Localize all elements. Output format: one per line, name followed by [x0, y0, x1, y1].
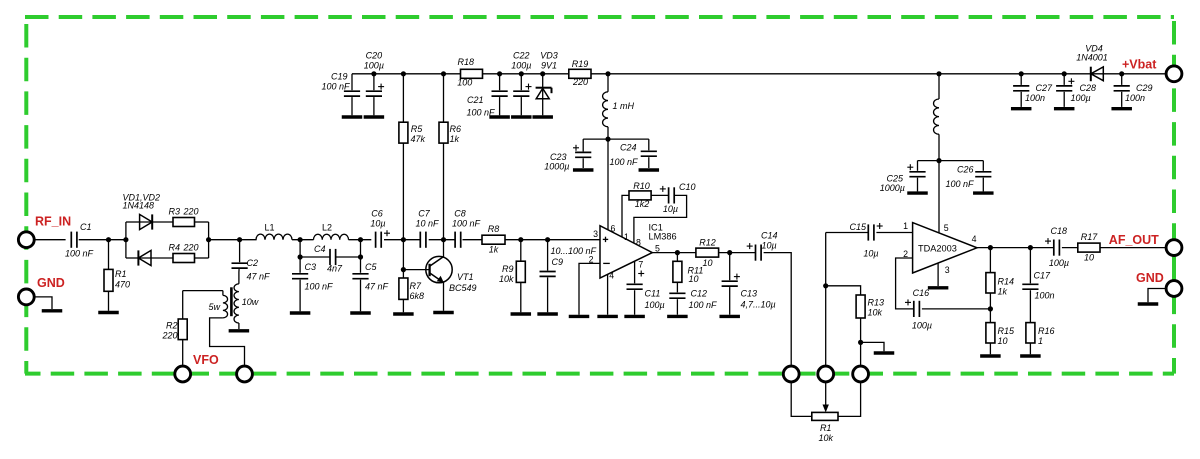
wire C14 to volume terminal — [764, 253, 792, 367]
capacitor C10 10u — [651, 182, 695, 214]
wire C5 riser — [360, 240, 362, 273]
svg-text:C3: C3 — [305, 262, 317, 272]
wire diode branch right riser — [208, 222, 210, 258]
svg-text:100n: 100n — [1035, 291, 1055, 301]
ground under C25 — [907, 191, 928, 194]
svg-text:5w: 5w — [209, 302, 221, 312]
svg-text:BC549: BC549 — [449, 283, 477, 293]
diode VD4 1N4001 — [1076, 44, 1108, 82]
svg-text:AF_OUT: AF_OUT — [1109, 233, 1159, 247]
ground under C22 — [511, 115, 532, 118]
transformer T1 core — [230, 287, 233, 316]
terminal VFO left — [175, 366, 191, 382]
ground under C12 — [667, 315, 688, 318]
ground under C9 — [537, 312, 558, 315]
node junction choke L3/top-rail — [605, 71, 610, 76]
node junction choke L4/top-rail — [936, 71, 941, 76]
ground under GND terminal — [42, 309, 63, 312]
capacitor C14 10u — [747, 231, 778, 261]
svg-text:6k8: 6k8 — [410, 291, 425, 301]
svg-text:220: 220 — [183, 242, 199, 252]
node junction C21/top-rail — [497, 71, 502, 76]
svg-text:C21: C21 — [467, 95, 484, 105]
wire GND terminal to ground — [35, 297, 52, 309]
resistor R13 10k — [856, 295, 884, 318]
node junction C29/top-rail — [1119, 71, 1124, 76]
terminal bottom middle — [818, 366, 834, 382]
transformer T1 winding 10w — [234, 272, 259, 329]
svg-text:GND: GND — [1136, 271, 1164, 285]
node junction R5/R7/base — [401, 237, 406, 242]
node junction C4 right — [358, 254, 363, 259]
capacitor C9 — [540, 240, 597, 313]
ground under C23 — [573, 168, 594, 171]
wire TDA2003 pin3 to ground — [937, 263, 939, 286]
ground under C5 — [350, 311, 371, 314]
ground under VD3 — [532, 115, 553, 118]
svg-text:10k: 10k — [499, 274, 514, 284]
wire TDA2003 output — [977, 247, 1054, 249]
svg-text:1000µ: 1000µ — [544, 162, 569, 172]
node junction diode ring left — [123, 237, 128, 242]
capacitor C11 100u — [627, 261, 665, 315]
wire VT1 emitter to ground — [443, 283, 445, 311]
resistor R12 10 — [696, 238, 719, 269]
wire top power rail — [352, 73, 1166, 75]
node junction C25/C26 — [936, 158, 941, 163]
capacitor C13 4.7-10u — [722, 253, 776, 315]
wire VT1 collector to rail — [443, 240, 445, 257]
svg-text:1: 1 — [903, 221, 908, 231]
resistor R9 10k — [499, 240, 525, 313]
svg-text:10µ: 10µ — [663, 204, 678, 214]
svg-text:100µ: 100µ — [511, 61, 531, 71]
wire LM386 pin4 to ground — [607, 274, 609, 314]
resistor R19 — [569, 59, 591, 87]
svg-text:C5: C5 — [365, 262, 377, 272]
svg-text:C16: C16 — [913, 288, 930, 298]
svg-text:C25: C25 — [886, 174, 904, 184]
node junction R5/top-rail — [401, 71, 406, 76]
svg-text:C1: C1 — [80, 222, 92, 232]
svg-text:3: 3 — [945, 265, 950, 275]
svg-text:C4: C4 — [314, 244, 326, 254]
svg-text:VD3: VD3 — [540, 51, 558, 61]
ground under C29 — [1111, 107, 1132, 110]
capacitor C1 — [65, 222, 94, 259]
svg-text:10k: 10k — [868, 308, 883, 318]
node junction C17 — [1028, 245, 1033, 250]
wire pot left leg — [791, 383, 812, 417]
wire C16 to R14/R15 junction — [922, 308, 991, 310]
svg-text:C9: C9 — [552, 257, 564, 267]
inductor L1 — [256, 223, 292, 240]
wire pot right leg — [838, 383, 861, 417]
svg-text:C12: C12 — [691, 289, 708, 299]
resistor R17 10 — [1078, 232, 1100, 263]
svg-text:10µ: 10µ — [863, 249, 878, 259]
resistor R1 470 — [104, 240, 130, 311]
ground under R16 — [1020, 354, 1041, 357]
ground under R1 — [98, 311, 119, 314]
capacitor C2 47nF — [232, 240, 271, 282]
resistor R10 1k2 — [622, 181, 651, 237]
node junction C3 top — [298, 237, 303, 242]
wire to LM386 pin 6 — [607, 139, 609, 230]
svg-text:1k: 1k — [489, 245, 499, 255]
svg-text:1k: 1k — [998, 287, 1008, 297]
resistor R7 6k8 — [399, 240, 424, 313]
svg-text:TDA2003: TDA2003 — [918, 244, 957, 254]
node junction R14/R15/C16 — [988, 306, 993, 311]
wire GND right to ground — [1148, 289, 1165, 303]
svg-text:100n: 100n — [1025, 93, 1045, 103]
svg-text:1k2: 1k2 — [635, 199, 650, 209]
capacitor C28 100u — [1056, 74, 1096, 107]
wire mixer to L1 — [209, 239, 257, 241]
node junction base tap — [401, 267, 406, 272]
node junction C20/top-rail — [371, 71, 376, 76]
capacitor C5 47nF — [352, 262, 388, 311]
wire R13 top — [826, 286, 861, 295]
svg-text:10µ: 10µ — [762, 241, 777, 251]
svg-text:100µ: 100µ — [364, 61, 384, 71]
svg-text:1000µ: 1000µ — [880, 183, 905, 193]
ground under C21 — [489, 115, 510, 118]
node junction R13/ground branch — [858, 340, 863, 345]
svg-text:C13: C13 — [741, 289, 758, 299]
node junction R6/top-rail — [441, 71, 446, 76]
terminal +Vbat — [1122, 58, 1182, 82]
svg-text:10µ: 10µ — [370, 219, 385, 229]
transistor VT1 BC549 — [426, 256, 477, 293]
wire R12 to C14 — [719, 252, 756, 254]
resistor R15 10 — [986, 323, 1015, 355]
svg-text:RF_IN: RF_IN — [35, 215, 71, 229]
inductor L4 choke — [934, 74, 939, 161]
wire R17 to AF_OUT — [1100, 247, 1166, 249]
svg-text:1: 1 — [1038, 336, 1043, 346]
capacitor C26 100nF — [939, 161, 991, 192]
ground under TDA2003 pin3 — [928, 286, 949, 289]
node junction C5 top — [358, 237, 363, 242]
svg-text:1N4001: 1N4001 — [1076, 53, 1108, 63]
svg-text:C7: C7 — [418, 209, 430, 219]
resistor R14 1k — [986, 248, 1014, 323]
svg-text:47k: 47k — [411, 134, 426, 144]
inductor L2 — [314, 223, 349, 240]
svg-text:7: 7 — [638, 260, 643, 270]
svg-text:LM386: LM386 — [649, 231, 677, 241]
svg-text:VT1: VT1 — [457, 272, 474, 282]
wire C3 riser — [299, 240, 301, 273]
svg-text:R1: R1 — [820, 423, 832, 433]
svg-text:1 mH: 1 mH — [613, 101, 635, 111]
svg-text:C24: C24 — [620, 143, 637, 153]
svg-text:C6: C6 — [371, 209, 383, 219]
svg-text:R9: R9 — [502, 264, 514, 274]
svg-text:C8: C8 — [454, 209, 466, 219]
resistor R16 1 — [1026, 323, 1055, 355]
svg-text:C22: C22 — [513, 51, 530, 61]
svg-text:C18: C18 — [1051, 226, 1068, 236]
wire C1 to mixer — [79, 239, 126, 241]
wire C6 to C7 — [384, 239, 420, 241]
svg-text:1k: 1k — [450, 134, 460, 144]
svg-text:4,7...10µ: 4,7...10µ — [741, 300, 776, 310]
capacitor C21 — [466, 74, 507, 118]
capacitor C20 — [364, 51, 384, 116]
node junction C23/C24 — [605, 137, 610, 142]
wire C8 to R8 — [463, 239, 483, 241]
svg-text:L1: L1 — [264, 223, 274, 233]
ground under C24 — [639, 168, 660, 171]
node junction C2 — [237, 237, 242, 242]
svg-text:100 nF: 100 nF — [65, 249, 94, 259]
svg-text:R16: R16 — [1038, 326, 1055, 336]
resistor R11 10 — [673, 253, 703, 284]
svg-text:100 nF: 100 nF — [305, 282, 334, 292]
capacitor C8 100nF — [452, 209, 481, 248]
svg-text:100 nF: 100 nF — [321, 82, 350, 92]
node junction R14 — [988, 245, 993, 250]
resistor R8 1k — [482, 224, 505, 255]
wire diode branch left riser — [126, 222, 140, 258]
wire L1 to L2 — [292, 239, 314, 241]
potentiometer R1 10k — [812, 383, 838, 443]
ground under right GND — [1138, 302, 1159, 305]
ground under C27 — [1011, 107, 1031, 110]
terminal RF_IN — [18, 215, 71, 248]
wire L2 to C6 — [349, 239, 372, 241]
ground under LM386 pin4 — [597, 315, 618, 318]
svg-text:R19: R19 — [572, 59, 589, 69]
svg-text:R12: R12 — [699, 238, 716, 248]
wire LM386 output — [652, 252, 696, 254]
capacitor C16 100u — [905, 288, 932, 331]
svg-text:100 nF: 100 nF — [945, 179, 974, 189]
ground under C3 — [290, 311, 311, 314]
svg-text:C10: C10 — [679, 182, 696, 192]
terminal bottom left — [783, 366, 799, 382]
ground under transformer — [229, 329, 250, 332]
inductor L3 1 mH choke — [603, 74, 635, 139]
svg-text:R4: R4 — [169, 242, 181, 252]
capacitor C19 — [321, 72, 360, 116]
ground under C26 — [973, 191, 994, 194]
svg-text:C29: C29 — [1136, 83, 1153, 93]
svg-text:C28: C28 — [1080, 83, 1097, 93]
ground under R7 — [393, 312, 414, 315]
terminal AF_OUT — [1109, 233, 1182, 256]
ground under R9 — [511, 312, 532, 315]
node junction R9 — [518, 237, 523, 242]
capacitor C25 1000u — [880, 161, 939, 193]
svg-text:C15: C15 — [849, 222, 867, 232]
capacitor C29 100n — [1114, 74, 1153, 107]
wire LM386 -input to ground — [579, 263, 600, 314]
wire base tap to VT1 — [403, 269, 429, 271]
ground under R15 — [980, 354, 1001, 357]
terminal GND left — [18, 276, 64, 305]
svg-text:100 nF: 100 nF — [689, 300, 718, 310]
node junction C4 left — [298, 254, 303, 259]
op-amp IC1 LM386 — [589, 222, 677, 280]
svg-text:C14: C14 — [761, 231, 778, 241]
wire C10 to LM386 pin8 — [634, 195, 687, 243]
diode VD1 1N4148 — [123, 192, 174, 229]
svg-text:47 nF: 47 nF — [365, 282, 389, 292]
svg-text:R14: R14 — [998, 277, 1015, 287]
node junction R1 — [106, 237, 111, 242]
svg-text:5: 5 — [944, 223, 949, 233]
svg-text:8: 8 — [636, 237, 641, 247]
node junction C9 — [545, 237, 550, 242]
ground under C20 — [364, 115, 385, 118]
wire C15 to TDA2003 pin1 — [876, 232, 912, 234]
svg-text:220: 220 — [572, 77, 588, 87]
resistor R4 220 — [169, 242, 209, 262]
node junction collector/R6 — [441, 237, 446, 242]
terminal bottom right — [853, 366, 869, 382]
svg-text:C17: C17 — [1034, 271, 1052, 281]
node junction wiper/R13 — [823, 283, 828, 288]
node junction C22/top-rail — [519, 71, 524, 76]
capacitor C22 — [511, 51, 531, 116]
svg-text:100µ: 100µ — [1049, 258, 1069, 268]
svg-text:+Vbat: +Vbat — [1122, 58, 1157, 72]
svg-text:C19: C19 — [331, 72, 348, 82]
svg-text:10: 10 — [1084, 253, 1094, 263]
zener diode VD3 9V1 — [536, 51, 558, 116]
svg-text:6: 6 — [611, 223, 616, 233]
svg-text:10w: 10w — [242, 297, 259, 307]
svg-text:3: 3 — [593, 229, 598, 239]
wire RF_IN to C1 — [35, 239, 66, 241]
wire TDA2003 pin2 to C16 — [896, 258, 914, 309]
svg-text:R7: R7 — [410, 281, 422, 291]
svg-text:10: 10 — [702, 258, 712, 268]
wire R13 bottom to terminal — [860, 318, 862, 365]
ground under C13 — [719, 315, 740, 318]
capacitor C7 10nF — [415, 209, 439, 248]
capacitor C6 10u — [370, 209, 390, 248]
transformer T1 winding 5w — [183, 291, 228, 318]
ground under C19 — [342, 115, 363, 118]
svg-text:1N4148: 1N4148 — [123, 200, 155, 210]
svg-text:VFO: VFO — [193, 353, 219, 367]
svg-text:GND: GND — [37, 276, 65, 290]
svg-text:R1: R1 — [115, 269, 127, 279]
ground under VT1 emitter — [433, 311, 454, 314]
capacitor C27 100n — [1013, 74, 1053, 107]
svg-text:C11: C11 — [645, 289, 661, 299]
capacitor C23 1000u — [544, 139, 608, 171]
node junction diode ring right — [206, 237, 211, 242]
wire to C15 — [825, 233, 827, 286]
node junction C13 — [727, 250, 732, 255]
node junction C27/top-rail — [1019, 71, 1024, 76]
svg-text:10: 10 — [689, 274, 699, 284]
svg-text:R3: R3 — [169, 206, 181, 216]
svg-text:C26: C26 — [957, 165, 974, 175]
capacitor C24 — [608, 139, 657, 168]
svg-text:R6: R6 — [450, 124, 462, 134]
svg-text:R10: R10 — [633, 181, 650, 191]
svg-text:100 nF: 100 nF — [452, 219, 481, 229]
wire TDA2003 pin5 from choke — [938, 161, 940, 233]
terminal GND right — [1136, 271, 1182, 296]
svg-text:100: 100 — [457, 78, 472, 88]
svg-text:100µ: 100µ — [1071, 93, 1091, 103]
svg-text:9V1: 9V1 — [541, 61, 557, 71]
svg-text:C23: C23 — [550, 152, 567, 162]
resistor R2 220 — [161, 291, 187, 366]
svg-text:1: 1 — [624, 232, 629, 242]
svg-text:10: 10 — [998, 336, 1008, 346]
resistor R6 — [439, 74, 461, 240]
resistor R5 — [399, 74, 426, 240]
svg-text:100µ: 100µ — [912, 321, 932, 331]
capacitor C15 10u — [849, 222, 882, 259]
ground under C28 — [1054, 107, 1075, 110]
wire C18 to R17 — [1062, 247, 1078, 249]
wire 5w bottom to VFO right — [210, 318, 245, 366]
svg-text:L2: L2 — [322, 223, 332, 233]
ground under LM386 pin2 — [569, 315, 590, 318]
svg-text:4: 4 — [972, 234, 977, 244]
node junction VD3/top-rail — [540, 71, 545, 76]
resistor R3 220 — [169, 206, 209, 226]
svg-text:R18: R18 — [458, 57, 475, 67]
diode VD2 1N4148 — [138, 250, 173, 265]
svg-text:220: 220 — [183, 206, 199, 216]
node junction R11 — [675, 250, 680, 255]
wire volume wiper riser — [825, 286, 827, 366]
ground near R13 — [874, 351, 895, 354]
svg-text:470: 470 — [115, 280, 130, 290]
svg-text:C20: C20 — [366, 51, 383, 61]
capacitor C12 100nF — [669, 282, 717, 314]
svg-text:4n7: 4n7 — [327, 264, 343, 274]
amplifier IC2 TDA2003 — [903, 221, 977, 275]
wire R8 to LM386 +input — [505, 239, 600, 241]
terminal VFO right — [237, 366, 253, 382]
capacitor C4 4n7 — [300, 244, 360, 274]
svg-text:100n: 100n — [1125, 93, 1145, 103]
svg-text:47 nF: 47 nF — [247, 272, 271, 282]
capacitor C18 100u — [1045, 226, 1069, 268]
svg-text:10 nF: 10 nF — [415, 219, 439, 229]
svg-text:10k: 10k — [818, 433, 833, 443]
svg-text:100µ: 100µ — [645, 300, 665, 310]
svg-text:R5: R5 — [411, 124, 423, 134]
resistor R18 — [457, 57, 482, 88]
capacitor C17 100n — [1022, 248, 1054, 323]
node junction C28/top-rail — [1062, 71, 1067, 76]
svg-text:C27: C27 — [1036, 83, 1054, 93]
svg-text:R2: R2 — [166, 321, 178, 331]
svg-text:R17: R17 — [1081, 232, 1099, 242]
capacitor C3 100nF — [292, 262, 333, 311]
svg-text:R8: R8 — [488, 224, 500, 234]
svg-text:4: 4 — [609, 271, 614, 281]
wire C7 to C8 — [429, 239, 455, 241]
dashed enclosure border — [25, 17, 1174, 374]
svg-text:R13: R13 — [868, 298, 885, 308]
svg-text:220: 220 — [161, 331, 177, 341]
svg-text:100 nF: 100 nF — [609, 157, 638, 167]
